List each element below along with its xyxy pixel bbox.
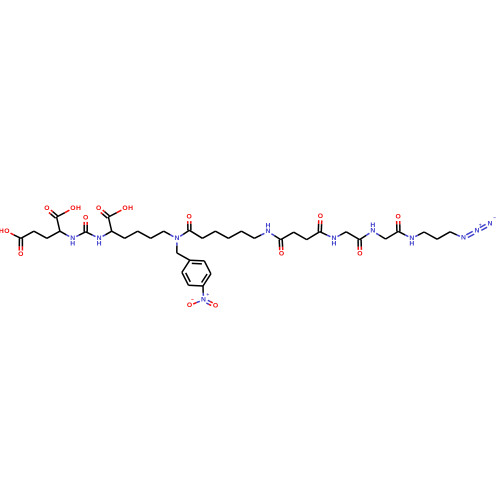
svg-text:O: O — [279, 251, 284, 258]
carboxylic acid HOOC (glutamate gamma-COOH) — [0, 228, 23, 258]
wire glutamate CH2-CH2 chain — [21, 231, 60, 238]
urea N-H (right) — [86, 232, 102, 248]
svg-text:O: O — [187, 302, 192, 309]
amide N-H (azidopropyl) — [398, 231, 414, 247]
svg-text:N: N — [174, 235, 179, 242]
svg-text:O: O — [83, 214, 88, 221]
svg-text:H: H — [128, 205, 133, 212]
amide N-H (Ahx) — [254, 222, 270, 238]
svg-text:−: − — [493, 216, 496, 221]
glycine-2 CH2 and C=O — [376, 214, 401, 240]
svg-text:N: N — [487, 220, 492, 227]
succinyl carbonyl C=O (left) — [271, 234, 284, 258]
wire benzylic N-CH2 — [177, 243, 190, 261]
amide N-H (Gly1) — [320, 232, 337, 248]
glycine-1 CH2 and C=O — [338, 232, 363, 258]
svg-text:O: O — [357, 250, 362, 257]
succinyl carbonyl C=O (right) — [307, 213, 323, 240]
wire lysine (CH2)4 side chain — [112, 231, 164, 238]
urea carbonyl C=O — [76, 214, 88, 236]
svg-text:O: O — [187, 214, 192, 221]
wire aminohexanoyl (CH2)5 chain — [189, 230, 254, 238]
wire succinyl CH2-CH2 — [281, 232, 307, 239]
svg-text:H: H — [70, 241, 75, 248]
svg-text:+: + — [206, 293, 209, 298]
svg-text:−: − — [191, 298, 194, 303]
nitro group N+(=O)O- — [187, 286, 218, 310]
svg-text:N: N — [201, 296, 206, 303]
azide N=N+=N- — [450, 216, 496, 241]
svg-text:H: H — [0, 228, 4, 235]
benzene ring (4-nitrophenyl) — [182, 260, 211, 286]
amide N-H (Gly2) — [360, 222, 376, 240]
amide carbonyl C=O (N-acyl) — [180, 214, 192, 237]
svg-text:O: O — [18, 251, 23, 258]
svg-text:H: H — [266, 222, 271, 229]
svg-text:H: H — [409, 241, 414, 248]
svg-text:O: O — [44, 205, 49, 212]
svg-text:N: N — [475, 227, 480, 234]
svg-text:O: O — [96, 205, 101, 212]
svg-text:H: H — [97, 241, 102, 248]
svg-text:O: O — [213, 303, 218, 310]
svg-text:H: H — [370, 222, 375, 229]
svg-text:O: O — [318, 213, 323, 220]
svg-text:+: + — [479, 223, 482, 228]
svg-text:O: O — [4, 228, 9, 235]
carboxylic acid COOH (lysine alpha) — [96, 205, 133, 236]
svg-text:H: H — [76, 205, 81, 212]
svg-text:O: O — [70, 205, 75, 212]
urea N-H (left) — [60, 231, 75, 247]
svg-text:N: N — [461, 235, 466, 242]
svg-text:O: O — [122, 205, 127, 212]
tertiary amine N — [164, 231, 180, 242]
svg-text:O: O — [395, 214, 400, 221]
wire propyl (CH2)3 chain — [415, 232, 450, 239]
svg-text:H: H — [332, 241, 337, 248]
carboxylic acid COOH (glutamate alpha) — [44, 205, 81, 231]
